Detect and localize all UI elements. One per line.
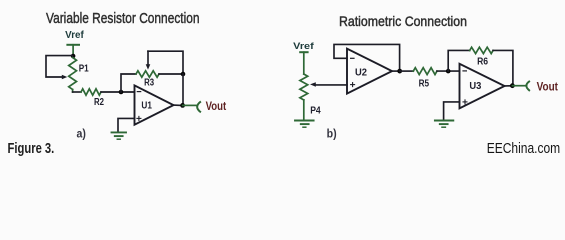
svg-text:Vref: Vref: [293, 41, 314, 52]
svg-text:R3: R3: [144, 78, 154, 89]
svg-text:EEChina.com: EEChina.com: [487, 141, 561, 157]
svg-text:b): b): [327, 127, 337, 141]
svg-text:R5: R5: [419, 79, 430, 90]
svg-text:Variable Resistor Connection: Variable Resistor Connection: [46, 10, 200, 27]
svg-text:P1: P1: [79, 64, 89, 75]
svg-text:U1: U1: [141, 99, 152, 111]
svg-text:a): a): [77, 127, 86, 141]
svg-text:Vout: Vout: [206, 101, 227, 113]
svg-text:U3: U3: [469, 80, 481, 92]
svg-text:Vref: Vref: [65, 30, 84, 41]
svg-text:Ratiometric Connection: Ratiometric Connection: [339, 14, 467, 29]
svg-text:R6: R6: [477, 56, 488, 67]
svg-text:Vout: Vout: [537, 82, 559, 94]
svg-text:U2: U2: [355, 66, 367, 78]
svg-text:Figure 3.: Figure 3.: [8, 140, 55, 157]
svg-text:R2: R2: [94, 97, 104, 108]
svg-text:P4: P4: [310, 106, 321, 117]
